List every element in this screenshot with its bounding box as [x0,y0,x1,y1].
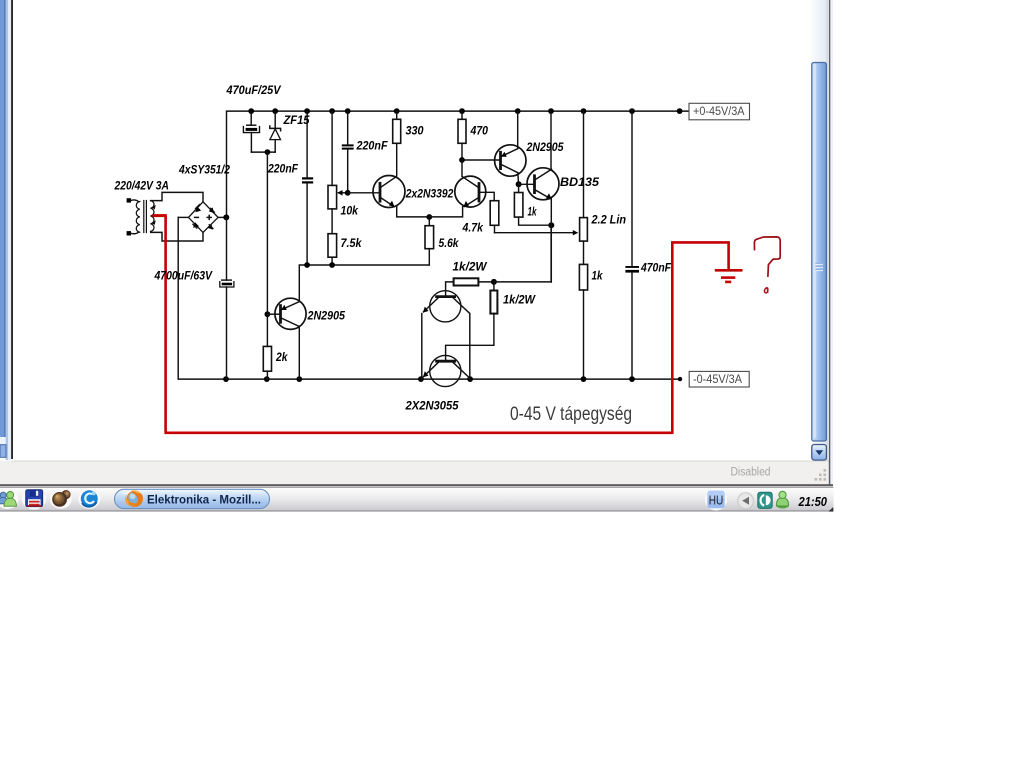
svg-text:4.7k: 4.7k [462,221,485,235]
resistor R2 7.5k [328,234,337,265]
wire bottom rail [178,217,680,379]
svg-text:7.5k: 7.5k [341,236,363,250]
node rail-output [677,108,683,114]
wire zener/C1 junction [251,151,275,153]
wire junction down to Q5 base and 2k [266,152,268,346]
quicklaunch icon: shell swirl [50,489,72,509]
node bottomrail-output [678,377,682,381]
resistor R8 1k [579,264,587,379]
right scrollbar thumb [812,63,827,442]
node rail-470 [459,108,465,114]
svg-text:1k/2W: 1k/2W [503,293,537,307]
svg-text:10k: 10k [341,204,360,218]
quicklaunch icon: messenger buddies [0,490,19,509]
node emitters-5.6k [426,214,432,220]
node rail-330 [394,108,400,114]
svg-text:470nF: 470nF [640,261,671,275]
background window scrollbar (left edge sliver) [0,0,4,437]
svg-text:220/42V 3A: 220/42V 3A [114,179,169,193]
ground symbol (red) [715,270,743,282]
node bottomrail-Q5 [296,376,302,382]
transistor Q7 2N3055 bottom [423,355,470,386]
output box +0-45V/3A [689,103,750,120]
node rail-Q3-emitter [515,108,521,114]
potentiometer P2 2.2k Lin [580,111,588,264]
wire driver bus to 1k/2W [446,282,454,297]
node Q5 base tap [265,311,271,317]
tray: green buddy [776,491,789,508]
svg-text:+0-45V/3A: +0-45V/3A [693,106,745,118]
node rail-pot2.2 [581,108,587,114]
front window right border [829,0,831,486]
resistor R4 330 [393,111,401,175]
resistor R9 2k [263,346,271,379]
svg-text:1k: 1k [528,205,538,219]
node bus-C2 [304,262,310,268]
transformer TR1 [131,200,155,234]
transistor Q6 2N3055 top [422,291,470,379]
wire red bottom horizontal [164,431,672,434]
svg-text:2.2 Lin: 2.2 Lin [591,213,626,227]
resistor R5 470 [458,111,466,160]
potentiometer P1 10k [328,111,348,234]
wire secondary bottom to bridge [151,232,203,241]
wire bridge minus to bottom rail [178,216,188,218]
svg-text:0-45 V tápegység: 0-45 V tápegység [510,403,632,425]
quicklaunch icon: floppy save [22,489,46,510]
svg-text:4xSY351/2: 4xSY351/2 [178,163,230,177]
status bar resize grip [815,469,827,481]
resistor R11 1k/2W vertical [446,282,498,361]
wire wiper to Q1 base [348,192,380,194]
transistor Q3 2N2905 [462,111,526,184]
transistor Q2 2N3392 [429,160,494,217]
svg-text:2X2N3055: 2X2N3055 [405,399,459,413]
node rail-220nF-B [345,108,351,114]
svg-text:Disabled: Disabled [731,467,771,479]
right scrollbar track [811,0,828,461]
svg-text:2N2905: 2N2905 [307,309,346,323]
annotation red question mark [754,237,780,276]
node rail-470uF [248,108,254,114]
capacitor C1 470uF/25V [243,111,259,152]
svg-text:1k/2W: 1k/2W [453,260,489,274]
svg-text:220nF: 220nF [356,139,388,153]
node bottomrail-2k [264,376,270,382]
wire red left vertical [164,216,167,432]
svg-text:-0-45V/3A: -0-45V/3A [693,374,742,386]
svg-text:2N2905: 2N2905 [526,140,564,154]
node bottomrail-470nF [629,376,635,382]
taskbar button Elektronika [115,489,270,508]
svg-text:470: 470 [470,124,489,138]
wire R10 to node [478,281,494,283]
wire bridge plus to filter node [218,216,226,218]
browser status bar [11,461,831,485]
wire red right vertical [671,242,674,434]
capacitor C4 470nF [625,111,639,379]
node R10-R11-BD135 [491,279,497,285]
svg-text:BD135: BD135 [560,175,599,189]
node bottomrail-4700uF [223,376,229,382]
tray: HU language badge [705,489,727,511]
node rail-220nF-A [304,108,310,114]
node bottomrail-3055-right [467,376,473,382]
taskbar [0,487,834,512]
node zener junction [265,149,271,155]
right scrollbar down button [812,445,827,461]
node bus-7.5k [329,262,335,268]
wire Q5 collector bus [299,265,429,301]
resistor R10 1k/2W [454,278,479,285]
capacitor C2 220nF [302,111,313,265]
zener diode ZF15 [270,111,281,152]
node P1 wiper / C3 [345,190,351,196]
node rail-BD135-collector [548,108,554,114]
svg-text:220nF: 220nF [267,162,298,176]
svg-text:470uF/25V: 470uF/25V [226,83,282,97]
svg-text:21:50: 21:50 [798,495,827,509]
node bridge plus [223,214,229,220]
node Q3coll-BD135base-1k [516,181,522,187]
svg-text:4700uF/63V: 4700uF/63V [154,269,213,283]
node rail-470nF [629,108,635,114]
node rail-10k [329,108,335,114]
node 1k-BD135emitter [548,222,554,228]
transformer TR1 primary terminal top [127,198,131,202]
wire top supply rail [227,111,690,217]
svg-text:Elektronika - Mozill...: Elektronika - Mozill... [147,493,261,507]
wire red probe tap at transformer [152,214,166,217]
tray: teal icon [758,492,772,508]
node bottomrail-3055-left [418,376,424,382]
transistor Q5 2N2905 [267,298,306,379]
front window left border [11,0,13,459]
wire secondary top to bridge [151,192,203,201]
scrollbar thumb gripper [816,264,824,270]
wire red top to ground [671,242,729,269]
background window scrollbar down button [0,445,6,458]
front window bottom border [0,484,833,486]
resistor R6 4.7k [490,201,499,233]
capacitor C3 220nF [342,111,354,193]
output box -0-45V/3A [689,371,749,387]
wire 4.7k to pot wiper [495,232,577,234]
resistor R3 5.6k [425,217,434,265]
taskbar corner grip [829,507,834,512]
transistor Q4 BD135 [519,111,559,282]
resistor R7 1k [514,184,551,225]
svg-text:2k: 2k [275,350,288,364]
bridge rectifier 4xSY351/2 [189,202,219,233]
svg-text:2x2N3392: 2x2N3392 [405,187,454,201]
node 470-Q3base-Q2collector [459,157,465,163]
node rail-zener [272,108,278,114]
svg-text:1k: 1k [592,269,604,283]
svg-text:HU: HU [709,493,724,507]
node bottomrail-1k [581,376,587,382]
svg-text:ZF15: ZF15 [283,113,310,127]
capacitor C5 4700uF/63V [220,217,234,379]
svg-text:5.6k: 5.6k [439,236,460,250]
quicklaunch icon: blue orb [78,489,100,509]
svg-text:330: 330 [406,124,424,138]
transistor Q1 2N3392 [373,176,429,217]
transformer TR1 primary terminal bottom [127,231,131,235]
tray: back arrow circle [738,493,754,509]
wire node to BD135 emitter [494,225,551,282]
